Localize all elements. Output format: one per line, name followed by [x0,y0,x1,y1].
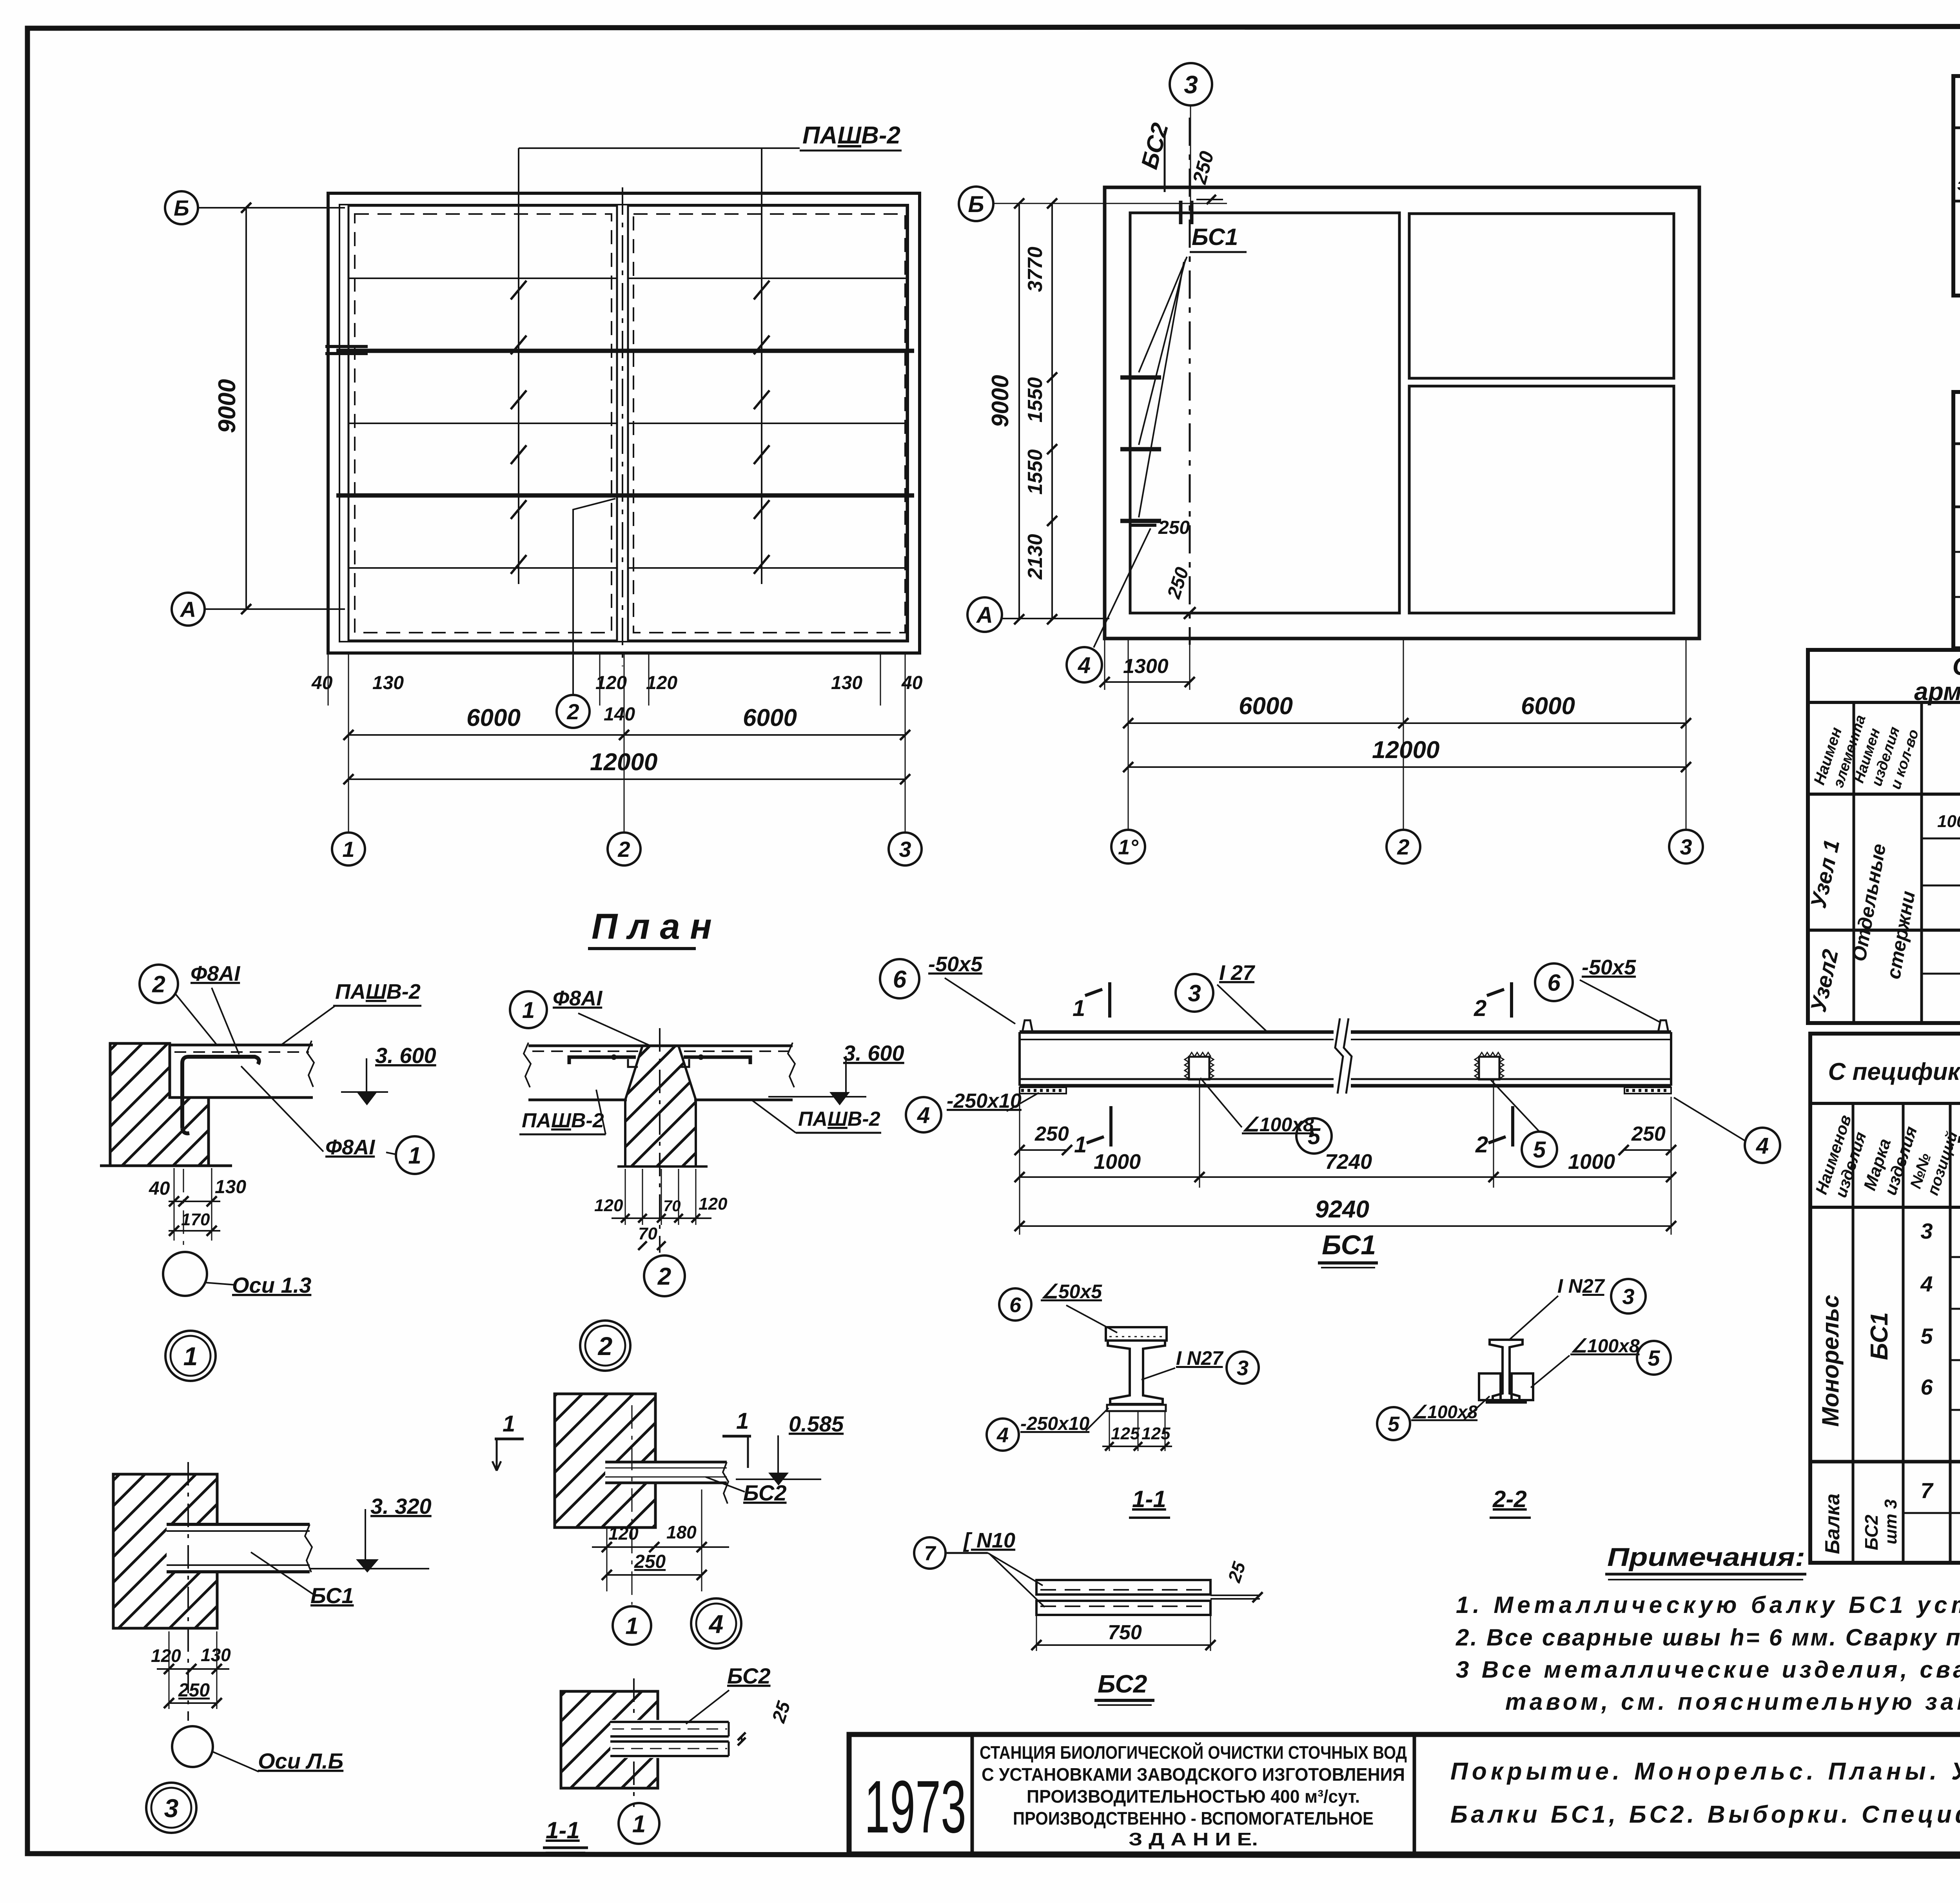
axis circle Оси 1.3 [183,1169,184,1251]
svg-text:1973: 1973 [864,1765,966,1849]
svg-text:3: 3 [1188,980,1201,1007]
svg-text:ПАШВ-2: ПАШВ-2 [522,1109,604,1132]
svg-text:2: 2 [1475,1132,1488,1157]
svg-text:2130: 2130 [1024,534,1047,580]
svg-text:2-2: 2-2 [1492,1486,1527,1512]
svg-text:250: 250 [1631,1123,1666,1145]
svg-text:шт 3: шт 3 [1881,1499,1900,1544]
detail node 1: wall bearing [100,962,436,1381]
notes [1455,1542,1960,1715]
svg-text:4: 4 [917,1103,930,1128]
svg-text:3: 3 [1920,1219,1933,1243]
projecting plate right [1210,1595,1260,1596]
svg-text:0.585: 0.585 [789,1411,844,1436]
svg-text:БС2: БС2 [1861,1515,1882,1550]
circle 4 with leader [1067,647,1102,682]
svg-text:40: 40 [149,1178,170,1199]
end bearing plates [1020,1087,1066,1094]
callout 5 right [1522,1132,1557,1167]
svg-text:250: 250 [634,1551,666,1572]
section 2-2: monorail clamp [1377,1275,1671,1518]
svg-text:1: 1 [183,1342,198,1371]
beam ticks on left wall [325,345,368,348]
svg-text:А: А [180,597,196,622]
dims 40 130 170 [174,1168,175,1241]
svg-text:Ф8АI: Ф8АI [325,1136,375,1159]
svg-text:2: 2 [617,837,630,862]
section cut marks [1108,982,1111,1018]
svg-text:1000: 1000 [1568,1150,1615,1174]
detail node 2: rib bearing [510,987,904,1371]
svg-text:3: 3 [1622,1284,1634,1309]
svg-text:7: 7 [924,1542,936,1565]
callout circle 2 [140,965,178,1003]
left dim chain [1051,203,1053,619]
svg-text:5: 5 [1533,1137,1546,1163]
svg-text:3: 3 [164,1794,179,1823]
svg-text:140: 140 [604,704,635,725]
svg-text:6: 6 [1920,1375,1933,1399]
svg-text:2: 2 [597,1332,613,1361]
svg-text:12000: 12000 [590,749,657,776]
svg-text:Б: Б [174,196,189,220]
table: steel specification [1810,1034,1960,1563]
dim line 6000+6000 [348,734,905,736]
axis Б [959,187,993,221]
svg-text:6000: 6000 [1239,693,1293,720]
axis 2 [624,653,625,833]
axis А [967,597,1002,632]
rib (hatched) [625,1046,696,1166]
detail node 3: beam BC1 on wall [113,1462,432,1833]
beam BC2 drawing [914,1529,1263,1705]
axis 3 top circle [1170,63,1212,105]
svg-text:∠100x8: ∠100x8 [1242,1114,1314,1136]
axis 3 [905,653,906,833]
svg-text:СТАНЦИЯ БИОЛОГИЧЕСКОЙ ОЧИСТКИ: СТАНЦИЯ БИОЛОГИЧЕСКОЙ ОЧИСТКИ СТОЧНЫХ ВО… [980,1742,1407,1763]
svg-text:3. 600: 3. 600 [375,1043,436,1068]
table: assembly nodes [1953,392,1960,648]
svg-text:120: 120 [594,1196,623,1215]
beam BC1 elevation [880,952,1780,1268]
svg-text:3: 3 [899,837,911,862]
dim 1000 7240 1000 [1019,1097,1020,1235]
svg-text:4: 4 [1756,1133,1769,1159]
dim 1300 [1104,639,1105,690]
bottom axis circles [1128,747,1129,830]
slab section [171,1043,313,1097]
svg-text:ПАШВ-2: ПАШВ-2 [335,980,421,1003]
svg-text:ПРОИЗВОДИТЕЛЬНОСТЬЮ 400 м³/сут: ПРОИЗВОДИТЕЛЬНОСТЬЮ 400 м³/сут. [1027,1786,1360,1807]
svg-text:5: 5 [1388,1412,1400,1436]
beam seats on wall [1120,376,1161,380]
svg-text:4: 4 [996,1423,1009,1447]
svg-text:-50x5: -50x5 [1582,956,1636,979]
svg-text:I N27: I N27 [1176,1347,1224,1369]
plate callout 2 [573,499,615,694]
svg-text:С УСТАНОВКАМИ ЗАВОДСКОГО ИЗГОТ: С УСТАНОВКАМИ ЗАВОДСКОГО ИЗГОТОВЛЕНИЯ [982,1764,1405,1785]
dim 9240 [1020,1225,1671,1227]
svg-text:1: 1 [503,1411,515,1437]
svg-text:6000: 6000 [466,704,521,731]
svg-text:250: 250 [1034,1123,1069,1145]
svg-text:1550: 1550 [1024,449,1047,495]
svg-text:БС2: БС2 [1098,1670,1147,1698]
svg-text:130: 130 [215,1177,246,1197]
svg-text:БС1: БС1 [1192,224,1238,250]
slab [528,1045,793,1047]
svg-text:1-1: 1-1 [1132,1486,1166,1512]
svg-text:180: 180 [666,1522,697,1542]
svg-text:12000: 12000 [1372,737,1439,764]
beam BC2 side view [605,1462,727,1483]
plan: monorail layout [959,63,1703,864]
svg-text:125: 125 [1111,1424,1140,1443]
svg-text:БС1: БС1 [310,1583,354,1608]
svg-text:4: 4 [708,1609,724,1638]
svg-text:1: 1 [408,1143,421,1169]
svg-text:120: 120 [608,1523,639,1544]
svg-text:[ N10: [ N10 [963,1529,1015,1552]
callout 6 right [1535,963,1573,1001]
table: precast concrete elements [1953,76,1960,296]
svg-text:5: 5 [1308,1124,1321,1149]
svg-text:40: 40 [311,673,333,693]
svg-text:125: 125 [1142,1424,1171,1443]
svg-text:Б: Б [968,192,984,217]
double channel [610,1720,729,1758]
svg-text:1: 1 [1074,1132,1087,1157]
svg-text:3. 320: 3. 320 [370,1494,432,1518]
svg-text:250: 250 [1158,517,1190,538]
svg-text:6: 6 [893,966,907,993]
svg-text:1: 1 [736,1408,749,1434]
svg-text:С п е ц и ф и к а ц и я: С п е ц и ф и к а ц и я [1953,652,1960,680]
svg-text:БС2: БС2 [743,1480,787,1505]
svg-text:70: 70 [663,1197,681,1215]
lifting tabs [1022,1020,1033,1032]
anchor bar [182,1057,259,1133]
svg-text:1000: 1000 [1094,1150,1141,1174]
dims 120 70 70 120 [625,1169,626,1225]
svg-text:2: 2 [1397,834,1409,859]
svg-text:3770: 3770 [1024,247,1047,292]
span inner frames with dashed slab edges [348,206,617,640]
svg-text:1550: 1550 [1024,377,1047,423]
svg-text:3: 3 [1237,1356,1249,1380]
svg-text:3: 3 [1680,834,1692,859]
svg-text:I 27: I 27 [1219,961,1256,985]
svg-text:-50x5: -50x5 [928,952,983,976]
svg-text:70: 70 [638,1224,657,1243]
dims 125 125 [1109,1411,1110,1451]
svg-text:БС2: БС2 [727,1664,771,1688]
svg-text:Оси 1.3: Оси 1.3 [232,1273,311,1297]
svg-text:2: 2 [566,699,579,724]
svg-text:БС1: БС1 [1322,1230,1376,1260]
svg-text:9000: 9000 [214,379,241,433]
dims 120 180 250 [606,1527,608,1591]
dim line 12000 [348,778,905,780]
svg-text:∠100x8: ∠100x8 [1570,1336,1640,1357]
stiffeners [1189,1057,1209,1079]
callout 6 left [880,959,919,998]
svg-text:40: 40 [901,673,923,693]
dims 120 130 250 [169,1631,170,1709]
callout 3 [1176,974,1213,1012]
axis 1 [348,653,349,833]
title block [849,1734,1960,1854]
svg-text:170: 170 [181,1210,210,1229]
dim 12000 [1128,766,1686,768]
svg-text:6: 6 [1547,970,1561,996]
svg-text:тавом, см. пояснительную з: тавом, см. пояснительную записку. [1505,1689,1960,1715]
svg-text:120: 120 [646,673,677,693]
svg-text:∠50x5: ∠50x5 [1041,1281,1102,1303]
svg-text:С пецификация стали на одн: С пецификация стали на одно изделие [1828,1058,1960,1085]
svg-text:Оси Л.Б: Оси Л.Б [258,1749,343,1773]
svg-text:6000: 6000 [1521,693,1575,720]
svg-text:7: 7 [1920,1478,1934,1503]
node number 2 [580,1321,630,1371]
svg-text:2: 2 [657,1263,671,1290]
svg-text:5: 5 [1920,1324,1933,1348]
svg-text:А: А [976,602,993,628]
svg-text:120: 120 [699,1194,728,1214]
dim 9000 [1018,203,1020,619]
break lines [1334,1019,1351,1094]
axis circle Оси Л.Б [172,1726,213,1767]
svg-text:1: 1 [625,1613,638,1639]
table: armature specification [1806,650,1960,1023]
svg-text:1300: 1300 [1123,655,1169,678]
dim 750 [1036,1615,1037,1651]
svg-text:Монорельс: Монорельс [1817,1295,1844,1427]
section 1-1 of node 4 [543,1664,795,1852]
callout 1 [510,991,547,1028]
svg-text:4: 4 [1920,1272,1933,1296]
callout 4 right [1745,1128,1780,1163]
svg-text:3. 600: 3. 600 [843,1041,904,1065]
node number 1 [165,1331,216,1381]
svg-text:4: 4 [1078,653,1091,678]
svg-text:I N27: I N27 [1557,1275,1605,1297]
svg-text:7240: 7240 [1325,1150,1372,1174]
beam BC1 side view [167,1524,310,1572]
top bars [569,1057,636,1064]
svg-text:БС1: БС1 [1866,1312,1893,1360]
svg-text:П л а н: П л а н [592,907,712,947]
monorail axis line [1189,118,1191,645]
svg-text:6: 6 [1009,1293,1022,1317]
svg-text:1: 1 [342,837,354,862]
dim 9000 vertical [245,208,247,609]
svg-text:6000: 6000 [743,704,797,731]
svg-text:∠100x8: ∠100x8 [1411,1402,1478,1422]
svg-text:1: 1 [632,1810,646,1838]
axis line [659,1028,661,1253]
svg-text:элемента: элемента [1957,175,1960,194]
slab mark leader lines [518,148,519,584]
svg-text:Ф8АI: Ф8АI [191,962,240,985]
svg-text:5: 5 [1648,1346,1660,1370]
callout 4 [987,1419,1019,1451]
svg-text:ПРОИЗВОДСТВЕННО - ВСПОМОГАТЕЛЬ: ПРОИЗВОДСТВЕННО - ВСПОМОГАТЕЛЬНОЕ [1013,1808,1374,1829]
detail node 4: beam BC2 on wall [492,1394,844,1649]
callout 2 below [644,1255,685,1296]
axis Б [165,191,198,224]
svg-text:2. Все сварные швы h= 6 мм.: 2. Все сварные швы h= 6 мм. Сварку произ… [1455,1624,1960,1651]
svg-text:9240: 9240 [1315,1196,1369,1223]
svg-text:ПАШВ-2: ПАШВ-2 [798,1108,880,1130]
axis А [172,593,205,626]
node number 3 [146,1783,196,1833]
I profile [1108,1341,1165,1404]
svg-text:2: 2 [1474,996,1486,1021]
svg-text:130: 130 [372,673,404,693]
svg-text:2: 2 [152,971,165,998]
svg-text:9000: 9000 [987,375,1013,427]
svg-text:1-1: 1-1 [546,1817,580,1843]
svg-text:1: 1 [522,998,535,1023]
svg-text:130: 130 [201,1645,231,1665]
svg-text:1°: 1° [1118,835,1138,859]
svg-text:3: 3 [1184,71,1198,99]
svg-text:250: 250 [178,1680,210,1701]
svg-text:130: 130 [831,673,862,693]
svg-text:-250x10: -250x10 [1020,1413,1089,1434]
callout 4 left [906,1097,941,1132]
svg-text:З Д А Н И Е.: З Д А Н И Е. [1129,1829,1258,1849]
svg-text:Балка: Балка [1821,1493,1844,1554]
svg-text:ПАШВ-2: ПАШВ-2 [802,122,900,149]
plan: roof slab layout [165,122,923,949]
svg-text:1: 1 [1073,996,1085,1021]
svg-text:Примечания:: Примечания: [1607,1542,1805,1571]
section 1-1: monorail I-beam [987,1281,1259,1518]
svg-text:750: 750 [1108,1621,1142,1644]
dim 6000+6000 [1128,639,1129,747]
svg-text:120: 120 [151,1645,181,1666]
node number 4 [691,1598,741,1649]
svg-text:1000: 1000 [1937,812,1960,831]
svg-text:Ф8АI: Ф8АI [553,987,603,1010]
